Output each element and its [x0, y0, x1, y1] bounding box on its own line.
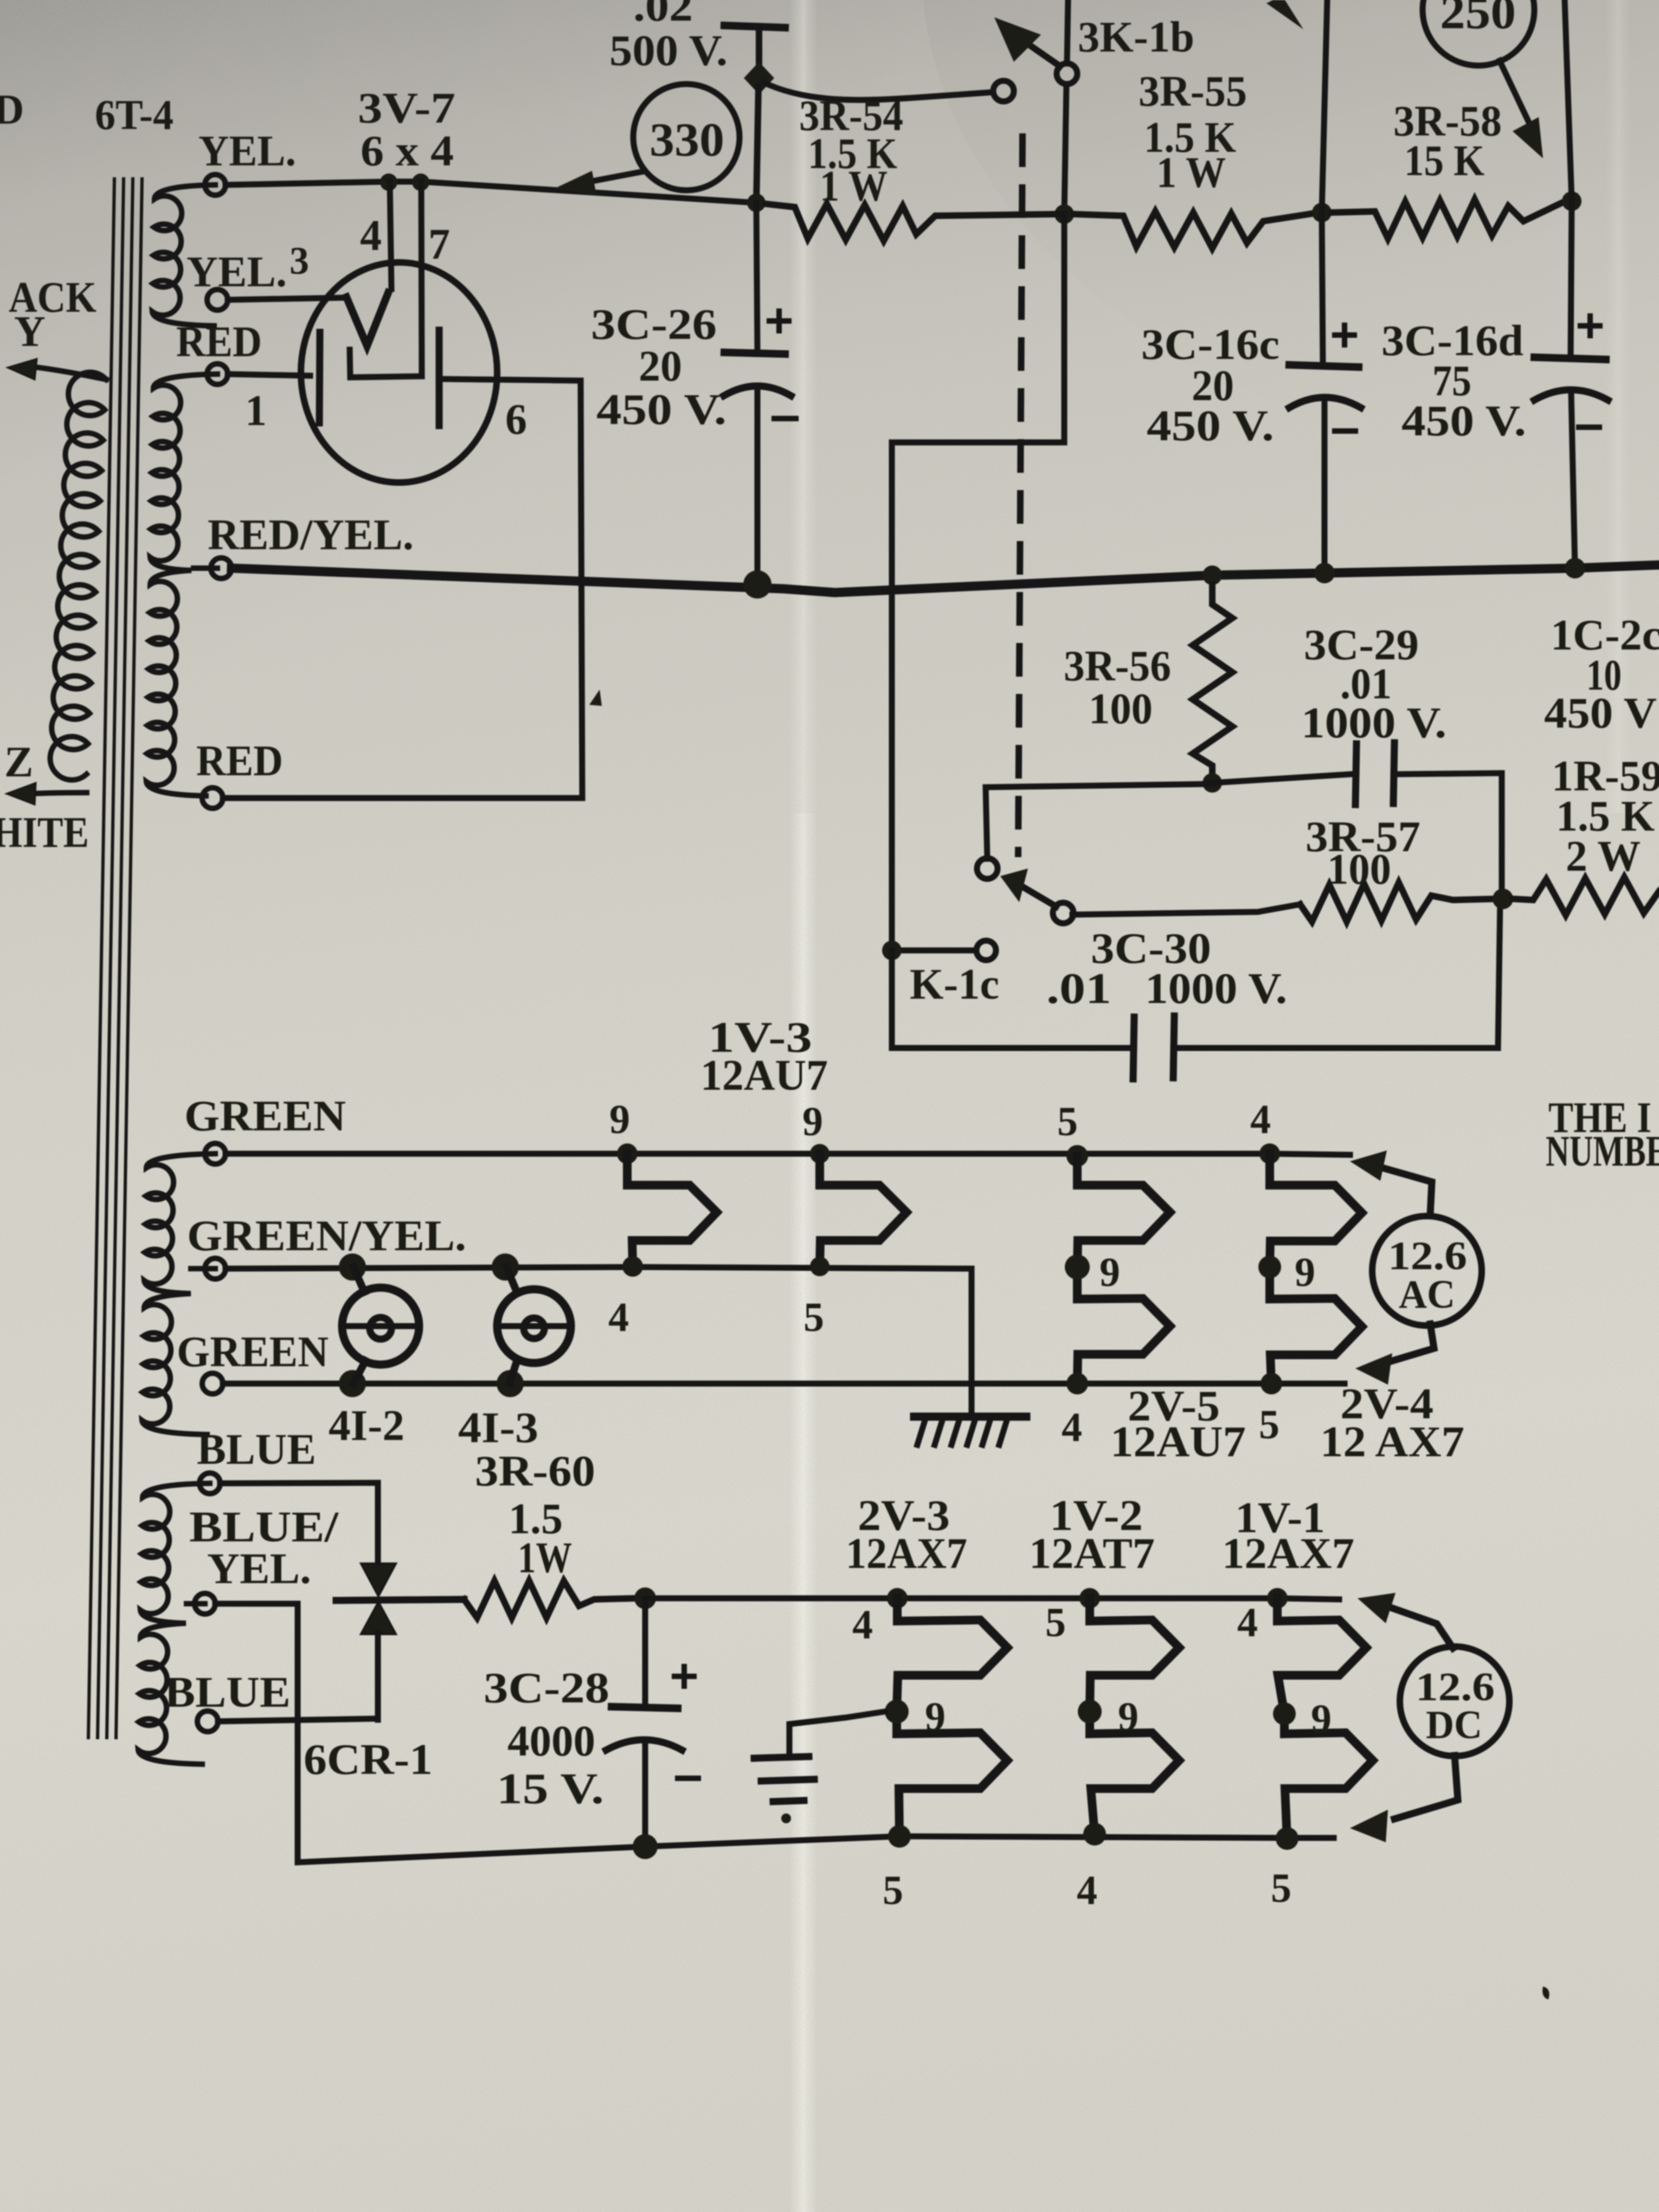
wire diamond down to YEL junction — [756, 87, 758, 203]
svg-text:250: 250 — [1440, 0, 1516, 39]
node 3R-56 bottom junction — [1203, 773, 1222, 793]
wire BLUE bottom to 6CR-1 — [218, 1719, 378, 1721]
node 3R-55 left junction — [1054, 204, 1074, 224]
svg-text:3C-28: 3C-28 — [484, 1664, 609, 1712]
heater 1V-1 upper — [1277, 1598, 1366, 1714]
arrow 12.6AC to top wire — [1382, 1168, 1432, 1214]
rectifier 6CR-1 upper section — [361, 1564, 396, 1596]
arrow to Z / WHITE lead — [28, 793, 87, 794]
transformer core (4 lamination lines) — [88, 179, 114, 1738]
svg-text:4I-3: 4I-3 — [458, 1404, 538, 1452]
node 1V-3 pin9 b — [810, 1144, 829, 1163]
node 3C-28 bottom junction — [633, 1834, 658, 1859]
wire K-1c to 3R-57 — [1072, 904, 1300, 915]
heater 2V-5 upper — [1077, 1156, 1170, 1266]
svg-text:450 V.: 450 V. — [596, 386, 726, 434]
node (diamond junction at .02) — [744, 62, 774, 94]
svg-text:6T-4: 6T-4 — [95, 91, 173, 138]
heater 1V-3 right half — [820, 1154, 906, 1266]
svg-text:K-1c: K-1c — [910, 961, 999, 1008]
paper fold crease — [789, 0, 818, 2212]
node 1V-3 pin9 a — [617, 1143, 638, 1164]
node K-1c bus junction — [882, 941, 902, 960]
terminal RED/YEL — [211, 558, 232, 578]
node bottom row pin5 b — [1276, 1827, 1298, 1850]
node 2V-4 pin4 — [1259, 1143, 1280, 1164]
svg-text:12AX7: 12AX7 — [1222, 1530, 1354, 1578]
arrow 12.6DC to top wire — [1391, 1607, 1453, 1648]
svg-text:4: 4 — [1250, 1097, 1271, 1142]
svg-text:1W: 1W — [518, 1534, 572, 1582]
BLUE winding (tapped) — [138, 1483, 210, 1764]
node bus/3C-26 — [743, 570, 771, 599]
resistor 3R-56 100 (vertical) — [1193, 584, 1232, 783]
svg-text:4: 4 — [1077, 1868, 1097, 1913]
transformer 6T-4 — [0, 86, 466, 1764]
arrow to Y (BLACK lead) — [8, 359, 37, 380]
svg-text:12.6: 12.6 — [1388, 1234, 1467, 1278]
cathode bracket — [350, 350, 422, 377]
svg-text:3C-26: 3C-26 — [591, 301, 717, 349]
node bus/3R-56 — [1203, 565, 1222, 585]
node 3R-60/3C-28 junction — [634, 1587, 656, 1609]
arrow 12.6AC to bottom wire — [1387, 1324, 1434, 1362]
svg-text:BLUE/: BLUE/ — [189, 1503, 339, 1551]
AC heater row — [223, 1014, 1659, 1466]
resistor 3R-58 15K — [1332, 200, 1564, 239]
svg-text:Y: Y — [14, 308, 46, 356]
svg-text:AC: AC — [1399, 1272, 1455, 1317]
svg-text:1 W: 1 W — [820, 163, 888, 210]
resistor 3R-57 100 — [1300, 883, 1494, 922]
node 2V-4 pin5 bottom — [1261, 1373, 1282, 1394]
wire pin6 from right plate to corner — [439, 379, 581, 381]
svg-text:12AX7: 12AX7 — [846, 1530, 967, 1578]
svg-text:2 W: 2 W — [1566, 833, 1641, 880]
svg-text:5: 5 — [1259, 1402, 1279, 1448]
svg-text:5: 5 — [883, 1868, 903, 1913]
terminal BLUE bottom — [197, 1711, 218, 1732]
pin 7 lead — [421, 182, 422, 376]
arrow from 250 to 3R-58 wire — [1500, 61, 1530, 125]
svg-text:3C-16c: 3C-16c — [1141, 321, 1279, 369]
YEL secondary winding — [152, 185, 215, 326]
heater 2V-3 upper — [897, 1598, 1007, 1711]
right plate — [436, 330, 443, 426]
svg-text:450 V: 450 V — [1544, 690, 1657, 737]
svg-text:9: 9 — [802, 1099, 823, 1144]
svg-text:4: 4 — [1062, 1405, 1082, 1450]
svg-text:6: 6 — [505, 396, 527, 443]
node 2V-5 pin4 bottom — [1066, 1373, 1088, 1394]
switch K-1c — [977, 858, 998, 879]
node GREEN/YEL lamp a — [339, 1253, 366, 1281]
svg-text:450 V.: 450 V. — [1147, 402, 1274, 450]
capacitor 3C-26 20 450V — [756, 203, 757, 350]
RED winding (tapped) — [146, 374, 217, 796]
terminal YEL.3 — [207, 290, 228, 310]
wire K-1c junction down to 3C-30 row — [892, 950, 1134, 1048]
svg-text:100: 100 — [1327, 846, 1391, 893]
capacitor 3C-29 .01 1000V — [1355, 744, 1356, 805]
svg-text:3R-56: 3R-56 — [1064, 642, 1171, 690]
svg-text:YEL.: YEL. — [198, 127, 296, 175]
capacitor .02 500V (partially cut at top) — [724, 25, 785, 28]
capacitor 3C-16c 20 450V — [1322, 213, 1323, 363]
svg-text:1: 1 — [245, 387, 267, 435]
svg-text:D: D — [0, 86, 24, 133]
svg-text:4: 4 — [1237, 1600, 1258, 1645]
wire pin3 (YEL.3) to filament — [228, 298, 346, 300]
heater 2V-3 lower — [897, 1711, 1007, 1836]
wire GREEN bottom row — [223, 1381, 1345, 1387]
svg-text:4I-2: 4I-2 — [329, 1402, 404, 1450]
node 1V-2 pin5 — [1079, 1588, 1100, 1609]
wire GREEN/YEL row — [226, 1267, 972, 1269]
wire 2V-3 pin9 to ground — [789, 1712, 885, 1756]
heater 1V-2 upper — [1090, 1598, 1179, 1712]
svg-text:6 x 4: 6 x 4 — [361, 127, 454, 175]
node 1V-3 pin5 — [810, 1257, 829, 1276]
arrow from 330 to YEL wire — [581, 171, 644, 183]
wire diamond to 3K-1b contact — [763, 82, 993, 100]
wire 3C-29 to right vertical — [1398, 773, 1502, 899]
circled 330 — [633, 84, 740, 190]
svg-text:BLUE: BLUE — [164, 1669, 291, 1716]
wire RED bottom to vertical — [223, 795, 582, 801]
terminal GREEN/YEL — [205, 1258, 226, 1279]
pilot lamp 4I-3 — [497, 1289, 571, 1363]
capacitor 3C-28 4000 15V — [642, 1598, 648, 1705]
svg-text:15 V.: 15 V. — [497, 1765, 604, 1813]
wire BLUE/YEL down and along bottom return — [215, 1604, 1334, 1862]
resistor 3R-54 1.5K 1W — [766, 204, 1057, 241]
tube envelope circle — [301, 262, 497, 483]
heater 2V-5 lower — [1077, 1266, 1170, 1384]
mid network: K-1c / 3R-56 / 3C-29 / 3R-57 / 3C-30 / 1R-59 — [882, 584, 1659, 1079]
svg-text:450 V.: 450 V. — [1401, 397, 1526, 445]
svg-text:9: 9 — [1118, 1694, 1139, 1740]
svg-text:7: 7 — [428, 221, 450, 268]
svg-text:4000: 4000 — [507, 1718, 595, 1765]
dashed line (chassis boundary) — [1018, 137, 1023, 854]
svg-text:DC: DC — [1426, 1703, 1482, 1747]
svg-text:1000 V.: 1000 V. — [1145, 965, 1287, 1013]
node 2V-5 pin9 — [1065, 1255, 1090, 1279]
heater 2V-4 upper — [1270, 1154, 1362, 1266]
small arrow speck near pin6 wire — [589, 690, 602, 706]
svg-text:5: 5 — [1057, 1099, 1078, 1144]
node 2V-3 pin4 — [887, 1588, 908, 1609]
svg-text:6CR-1: 6CR-1 — [304, 1736, 433, 1784]
node 1V-2 pin9 — [1078, 1700, 1102, 1724]
node 1V-1 pin9 — [1273, 1702, 1296, 1725]
svg-text:3V-7: 3V-7 — [358, 85, 455, 132]
circled 250 (cut at top) — [1423, 0, 1534, 66]
svg-text:GREEN: GREEN — [184, 1092, 346, 1140]
resistor 3R-55 1.5K 1W — [1074, 211, 1312, 248]
wire junction to 3C-29 — [1212, 774, 1351, 783]
terminal GREEN — [205, 1143, 226, 1164]
K-1c lower terminal — [976, 941, 996, 960]
svg-text:100: 100 — [1089, 685, 1153, 733]
svg-text:12AU7: 12AU7 — [1110, 1418, 1246, 1466]
chassis ground (AC row) — [969, 1269, 975, 1415]
svg-text:15 K: 15 K — [1404, 137, 1484, 185]
svg-text:RED: RED — [196, 737, 283, 785]
terminal BLUE — [200, 1473, 220, 1494]
node 2V-3 pin9 — [885, 1700, 909, 1724]
node YEL/3R-54 junction — [747, 194, 766, 212]
svg-text:9: 9 — [609, 1097, 630, 1142]
svg-text:GREEN/YEL.: GREEN/YEL. — [187, 1212, 466, 1260]
DC heater row — [215, 1448, 1549, 1999]
rectifier 6CR-1 lower section — [361, 1602, 396, 1634]
capacitor 3C-16d 75 450V — [1571, 201, 1572, 355]
svg-text:.01: .01 — [1046, 965, 1111, 1013]
GREEN winding (tapped) — [142, 1154, 215, 1435]
node 2V-4 pin9 — [1258, 1256, 1281, 1278]
node bottom row pin5 — [888, 1825, 911, 1848]
meter circle 12.6 DC — [1400, 1647, 1509, 1756]
wire pin1 (RED) to left plate — [228, 374, 310, 376]
terminal RED bottom — [202, 788, 223, 808]
arrow annotation at top of wire — [1266, 0, 1303, 29]
svg-text:9: 9 — [1311, 1696, 1332, 1742]
svg-text:330: 330 — [650, 114, 724, 166]
svg-text:3: 3 — [290, 239, 309, 282]
wire pin6 vertical down to RED bottom wire — [581, 381, 582, 798]
node 3C-16c junction — [1312, 203, 1332, 222]
node 1V-1 pin4 — [1267, 1588, 1288, 1609]
node pin7 top — [412, 173, 429, 191]
svg-text:RED/YEL.: RED/YEL. — [208, 511, 414, 559]
svg-text:3R-55: 3R-55 — [1139, 68, 1247, 115]
B- bus wire — [232, 565, 1659, 593]
node bus/3C-16d — [1565, 558, 1585, 578]
tube 3V-7 (6X4 rectifier) — [223, 85, 756, 798]
svg-text:1000 V.: 1000 V. — [1301, 699, 1446, 747]
ink speck — [1542, 1986, 1549, 1999]
svg-text:3K-1b: 3K-1b — [1078, 14, 1194, 61]
wire from top through 3K-1b down — [1067, 0, 1068, 63]
terminal BLUE/YEL — [195, 1593, 215, 1614]
svg-text:GREEN: GREEN — [177, 1328, 329, 1376]
svg-text:5: 5 — [1271, 1866, 1291, 1911]
switch 3K-1b — [993, 81, 1014, 101]
wire top vertical to 3R-58 junction — [1565, 0, 1572, 201]
wire GREEN top row — [226, 1154, 1350, 1155]
svg-text:9: 9 — [925, 1694, 946, 1740]
heater 2V-4 lower — [1270, 1266, 1362, 1384]
svg-text:12AU7: 12AU7 — [700, 1052, 828, 1099]
pilot lamp 4I-2 — [342, 1288, 419, 1365]
svg-text:YEL.: YEL. — [207, 1545, 311, 1593]
wire switched B+ down-left to K-1c — [892, 214, 1064, 950]
resistor 1R-59 1.5K 2W (cut at right edge) — [1513, 877, 1659, 915]
node 3R-58 right junction — [1562, 191, 1581, 211]
node GREEN btm lamp b — [497, 1370, 524, 1397]
top B+ network — [232, 0, 1659, 950]
svg-text:HITE: HITE — [0, 809, 89, 857]
node 3R-57/1R-59 junction — [1493, 889, 1513, 909]
svg-text:12 AX7: 12 AX7 — [1320, 1418, 1464, 1466]
svg-text:4: 4 — [852, 1602, 873, 1648]
capacitor 3C-30 .01 1000V — [1133, 1017, 1134, 1079]
6CR-1 output wire — [336, 1599, 464, 1600]
node 2V-5 pin5 — [1066, 1145, 1088, 1167]
wire top vertical to 3C-16c — [1322, 0, 1327, 213]
terminal GREEN bottom — [202, 1373, 223, 1394]
svg-text:20: 20 — [639, 343, 682, 390]
svg-text:12AT7: 12AT7 — [1029, 1530, 1155, 1578]
node bottom row pin4 — [1083, 1823, 1106, 1846]
heater 1V-3 left half — [627, 1154, 717, 1266]
svg-text:9: 9 — [1295, 1250, 1315, 1295]
arrow 12.6DC to bottom wire — [1394, 1756, 1458, 1819]
node 1V-3 pin4 — [622, 1256, 643, 1277]
svg-text:BLUE: BLUE — [197, 1426, 316, 1474]
svg-text:9: 9 — [1099, 1250, 1120, 1295]
svg-text:500 V.: 500 V. — [609, 27, 728, 75]
wire junction to K-1c upper contact — [986, 784, 1212, 859]
node bus/3C-16c — [1314, 563, 1335, 583]
svg-text:.02: .02 — [633, 0, 693, 30]
meter circle 12.6 AC — [1372, 1216, 1482, 1326]
node GREEN/YEL lamp b — [492, 1253, 519, 1281]
svg-text:5: 5 — [803, 1295, 824, 1340]
wire BLUE top to 6CR-1 — [220, 1483, 378, 1567]
svg-text:YEL.: YEL. — [187, 248, 287, 296]
filament V — [346, 293, 388, 346]
svg-text:4: 4 — [608, 1295, 629, 1340]
svg-text:NUMBE: NUMBE — [1546, 1128, 1659, 1175]
earth ground (DC row) — [754, 1757, 809, 1758]
left plate — [319, 332, 320, 423]
wire 3C-30 to right vertical up to 3R-57 junction — [1176, 900, 1500, 1048]
heater 1V-2 lower — [1090, 1712, 1179, 1834]
wire YEL to tube pins 4,7 — [226, 182, 756, 203]
terminal RED — [207, 364, 228, 384]
terminal YEL — [205, 175, 226, 195]
svg-text:Z: Z — [4, 738, 33, 786]
resistor 3R-60 1.5 1W — [464, 1581, 635, 1618]
heater 1V-1 lower — [1284, 1714, 1373, 1839]
svg-text:4: 4 — [360, 212, 382, 260]
node GREEN btm lamp a — [339, 1370, 366, 1397]
svg-text:5: 5 — [1045, 1600, 1066, 1645]
svg-text:RED: RED — [176, 318, 262, 366]
wire DC heater top row — [645, 1598, 1339, 1599]
svg-text:3R-60: 3R-60 — [475, 1448, 595, 1495]
primary winding (left side) — [30, 366, 106, 380]
svg-text:1 W: 1 W — [1156, 149, 1226, 197]
pin 4 lead — [390, 182, 391, 289]
node pin4 top — [380, 173, 397, 191]
